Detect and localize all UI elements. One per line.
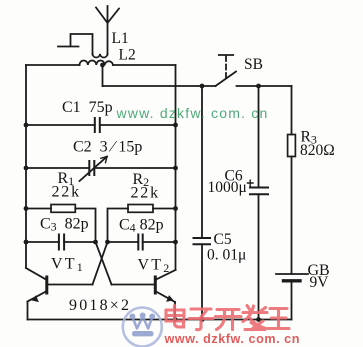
svg-text:C5: C5 (214, 231, 232, 248)
svg-text:L1: L1 (112, 30, 129, 47)
wire R row left (26, 208, 51, 210)
svg-text:C3 82p: C3 82p (40, 216, 89, 234)
battery GB (276, 274, 308, 281)
node C3 left (24, 240, 29, 245)
wire C4 row (108, 241, 176, 243)
svg-text:L2: L2 (119, 47, 136, 64)
svg-text:C2 3 ∕ 15p: C2 3 ∕ 15p (73, 139, 142, 156)
svg-text:1000μ: 1000μ (208, 179, 247, 196)
node C2 right (173, 166, 178, 171)
wire R2 right (153, 208, 176, 210)
svg-text:www. dzkfw. com. cn: www. dzkfw. com. cn (116, 105, 269, 121)
variable capacitor C2 (89, 161, 94, 175)
capacitor C6 electrolytic (250, 188, 268, 195)
antenna (96, 6, 119, 55)
svg-text:9018×2: 9018×2 (69, 297, 131, 314)
wire C5 rail (201, 86, 203, 320)
top rail wire (26, 64, 176, 66)
inductor L1 (93, 54, 108, 58)
capacitor C1 (95, 118, 100, 132)
node C4 right (173, 240, 178, 245)
node C6 rail top (256, 84, 261, 89)
bottom rail wire (28, 319, 292, 321)
node R2 right (173, 206, 178, 211)
wire R2 left corner down (108, 209, 129, 243)
resistor R1 (51, 205, 75, 213)
transistor VT2 (112, 270, 176, 320)
polarity plus of C6 (248, 180, 254, 186)
watermark logo circle (123, 308, 162, 347)
node X2 (105, 240, 110, 245)
wire L2 tap down to SB row (102, 65, 104, 86)
wire antenna tap step to terminal bar (58, 34, 93, 55)
resistor R2 (128, 205, 153, 213)
transistor VT1 (26, 268, 93, 320)
svg-text:22k: 22k (52, 184, 81, 201)
wire R3 to battery (291, 157, 293, 275)
wire cross coupling X1 to VT2 base (96, 242, 112, 285)
wire R3 rail top (291, 86, 293, 135)
node C1 right (173, 123, 178, 128)
svg-text:9V: 9V (310, 274, 330, 291)
svg-text:820Ω: 820Ω (300, 142, 335, 159)
tank rail wire (right of oscillator) (175, 65, 177, 270)
node VT2 emitter (173, 317, 178, 322)
resistor R3 (288, 135, 296, 157)
node C1 left (24, 123, 29, 128)
node R1 left (24, 206, 29, 211)
node C5 rail top (200, 84, 205, 89)
wire R1 right + corner down (75, 209, 95, 243)
svg-text:0. 01μ: 0. 01μ (207, 247, 246, 264)
svg-text:C1 75p: C1 75p (62, 99, 113, 116)
capacitor C5 (194, 238, 211, 244)
wire C2 row (26, 167, 176, 169)
wire SB row left (103, 85, 216, 87)
wire C1 row (26, 124, 176, 126)
watermark chinese chars (166, 306, 289, 330)
svg-text:C4 82p: C4 82p (119, 217, 164, 235)
node C2 left (24, 166, 29, 171)
capacitor C3 (59, 235, 64, 250)
capacitor C4 (138, 235, 142, 250)
node X1 (93, 240, 98, 245)
node C6 bottom (256, 317, 261, 322)
left rail wire (25, 65, 27, 268)
wire C3 row (26, 241, 96, 243)
wire battery to bottom rail (291, 281, 293, 320)
switch SB (216, 55, 237, 86)
wire cross coupling X2 to VT1 base (93, 242, 108, 285)
node L2 tap (100, 63, 105, 68)
svg-text:VT1: VT1 (51, 256, 85, 275)
svg-text:22k: 22k (131, 185, 160, 202)
node C5 bottom (200, 317, 205, 322)
wire C6 rail (258, 86, 260, 320)
svg-text:SB: SB (244, 56, 263, 73)
wire SB row right (237, 85, 292, 87)
svg-text:VT2: VT2 (138, 257, 172, 276)
svg-text:www. dzkfw. com. cn: www. dzkfw. com. cn (164, 332, 300, 346)
arrow of C2 (80, 157, 108, 182)
inductor L2 (80, 61, 114, 66)
